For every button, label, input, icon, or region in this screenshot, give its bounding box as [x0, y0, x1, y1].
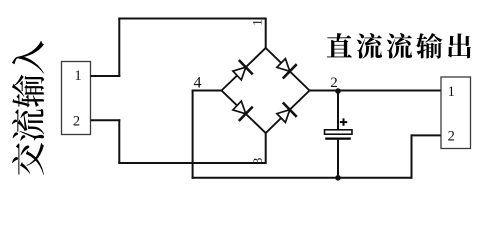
- connector J2 (DC output, right): [441, 77, 471, 149]
- wire right riser: [411, 134, 413, 178]
- bridge rectifier diamond edges: [222, 48, 310, 133]
- label: AC input text 交流输入 (rotated): [12, 41, 44, 175]
- svg-text:1: 1: [448, 84, 455, 100]
- wire J1 pin2 to corner: [91, 119, 121, 121]
- svg-text:1: 1: [250, 19, 265, 26]
- svg-text:1: 1: [74, 68, 81, 84]
- wire top rail: [118, 18, 266, 20]
- wire left drop down: [118, 119, 120, 164]
- wire mid rail to node 3: [118, 162, 266, 164]
- wire capacitor top stem: [337, 91, 339, 130]
- junction dot bottom rail: [335, 175, 341, 181]
- svg-text:2: 2: [73, 113, 80, 129]
- wire capacitor bottom stem: [337, 140, 339, 178]
- capacitor C1 positive plate (box): [325, 130, 353, 134]
- wire bridge node 2 to J2 pin1: [310, 90, 442, 92]
- wire node4 drop: [192, 90, 194, 179]
- label: DC output text 直流流输出: [327, 33, 471, 59]
- svg-text:3: 3: [250, 158, 265, 165]
- wire to J2 pin2: [411, 134, 442, 136]
- diode D3 (node4 to node3): [233, 101, 253, 121]
- wire stem top rail to bridge node 1: [265, 19, 267, 50]
- wire J1 pin1 to corner: [91, 75, 121, 77]
- wire left riser up: [118, 18, 120, 78]
- junction dot node 2: [335, 88, 341, 94]
- wire stem bridge node 3 down: [265, 132, 267, 164]
- wire bridge node 4 left: [192, 90, 222, 92]
- capacitor C1 plus sign: [340, 118, 347, 125]
- wire bottom rail: [192, 177, 413, 179]
- diode D4 (node3 to node2): [277, 103, 297, 123]
- diode D1 (node4 to node1): [233, 60, 253, 80]
- connector J1 (AC input, left): [62, 62, 91, 135]
- diode D2 (node1 to node2): [277, 59, 297, 79]
- svg-text:2: 2: [448, 128, 455, 144]
- svg-text:4: 4: [194, 75, 202, 92]
- capacitor C1 negative plate: [325, 137, 351, 139]
